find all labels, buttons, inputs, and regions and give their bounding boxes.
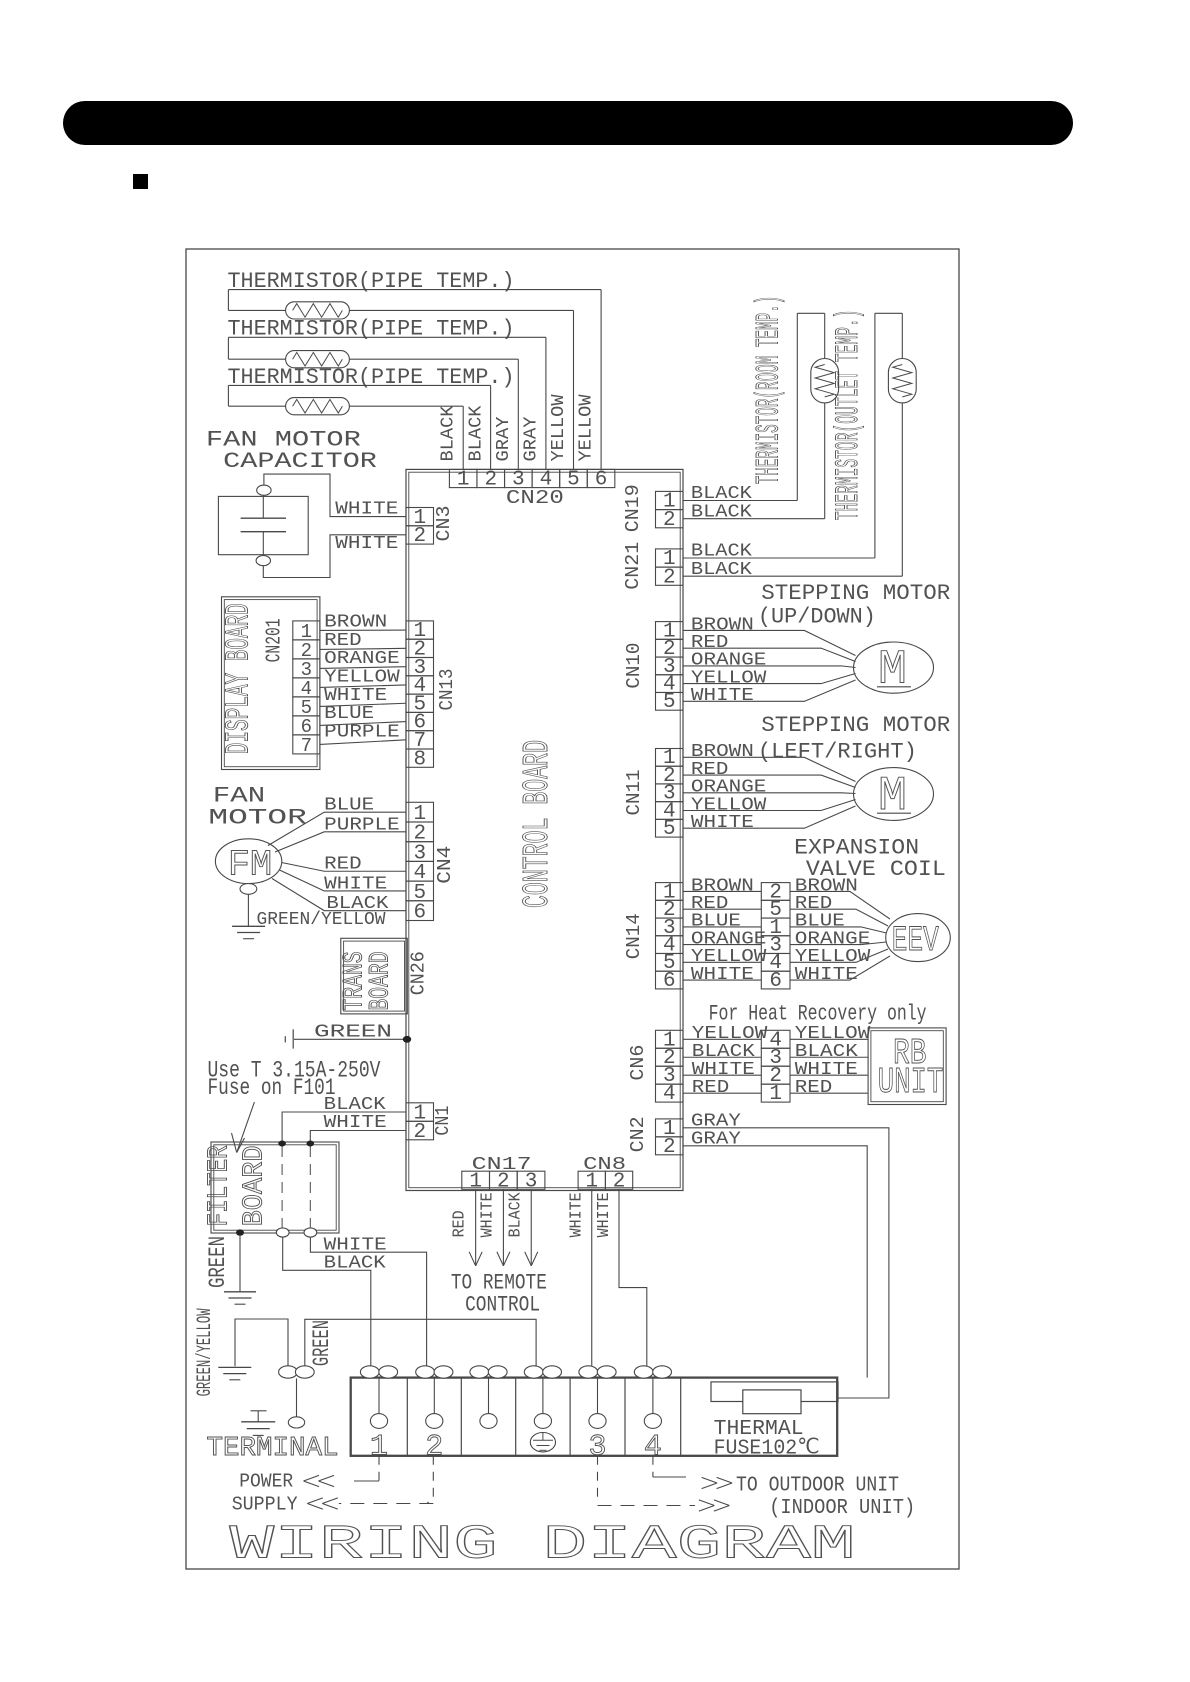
svg-text:GRAY: GRAY (520, 417, 541, 462)
terminal screw cell 6 (652, 1378, 654, 1414)
thermal fuse holder (711, 1382, 838, 1402)
svg-text:BLACK: BLACK (691, 559, 753, 580)
wire CN10 pin4 to motor M1 (YELLOW) (683, 674, 856, 684)
svg-text:5: 5 (663, 818, 676, 841)
svg-text:2: 2 (413, 1121, 426, 1144)
terminal screw cell 5 (597, 1378, 599, 1414)
svg-text:WHITE: WHITE (595, 1192, 614, 1237)
svg-text:BOARD: BOARD (237, 1145, 270, 1226)
thermistor TH5 resistor body (888, 359, 916, 403)
wire EEV connector to EEV coil (WHITE) (790, 956, 890, 980)
wire filter board to CN1 pin2 (WHITE) (310, 1131, 406, 1143)
chassis bolt stem (296, 1378, 298, 1417)
terminal lug pair cell 3 (470, 1366, 489, 1378)
fan motor FM body (215, 839, 281, 884)
expansion valve coil EEV (886, 914, 951, 962)
svg-text:GREEN/YELLOW: GREEN/YELLOW (257, 909, 387, 930)
svg-text:PURPLE: PURPLE (324, 721, 400, 742)
wire CN11 pin5 to motor M2 (WHITE) (683, 806, 856, 828)
wire CN11 pin2 to motor M2 (RED) (683, 775, 856, 787)
svg-text:WHITE: WHITE (567, 1192, 586, 1237)
wire FM to CN4 pin4 (RED) (282, 863, 406, 872)
wire display board pin4 to CN13 pin4 (YELLOW) (320, 685, 406, 687)
wire CN10 pin3 to motor M1 (ORANGE) (683, 666, 856, 668)
svg-text:BLACK: BLACK (438, 405, 459, 462)
trans board outline (341, 938, 408, 1014)
svg-text:UNIT: UNIT (878, 1062, 944, 1103)
svg-text:2: 2 (663, 566, 676, 589)
svg-text:PURPLE: PURPLE (324, 814, 400, 835)
wire RB connector to RB unit (BLACK) (790, 1056, 868, 1058)
svg-text:CN2: CN2 (627, 1116, 649, 1152)
filter board outline (211, 1142, 339, 1233)
wire display board pin5 to CN13 pin5 (WHITE) (320, 703, 406, 706)
terminal block divider 1 (406, 1378, 408, 1456)
dashed wire terminal 2 to power supply (427, 1456, 433, 1504)
svg-text:CN19: CN19 (622, 484, 644, 532)
svg-text:BLACK: BLACK (324, 1253, 387, 1274)
wire filter board to terminal 1 (BLACK) (283, 1237, 371, 1367)
svg-text:M: M (878, 644, 907, 698)
terminal screw cell 2 (433, 1378, 435, 1414)
svg-text:BLACK: BLACK (506, 1192, 525, 1238)
stepping motor M2 (left/right) (854, 768, 934, 821)
junction dot filter board top right (307, 1141, 315, 1147)
svg-text:(UP/DOWN): (UP/DOWN) (758, 604, 876, 629)
svg-text:CN201: CN201 (264, 618, 287, 662)
arrowhead CN17 pin3 (525, 1252, 532, 1266)
terminal block divider 2 (460, 1378, 462, 1456)
connector CN17 (3 pins) (462, 1171, 490, 1189)
connector CN3 (2 pins) (406, 508, 434, 526)
arrowhead CN17 pin2 (497, 1252, 504, 1266)
wire filter board to terminal 2 (WHITE) (310, 1237, 426, 1367)
svg-text:FILTER: FILTER (203, 1145, 236, 1226)
svg-text:CONTROL: CONTROL (465, 1292, 540, 1317)
svg-text:STEPPING MOTOR: STEPPING MOTOR (761, 581, 950, 606)
svg-text:FM: FM (228, 845, 272, 886)
dashed wire terminal 1 to power supply (378, 1456, 380, 1481)
junction dot filter board top left (278, 1141, 286, 1147)
wire FM to ground (GREEN/YELLOW) (247, 894, 249, 926)
wire CN11 pin3 to motor M2 (ORANGE) (683, 792, 856, 795)
wire CN11 pin4 to motor M2 (YELLOW) (683, 800, 856, 811)
wire CN6 pin1 to RB connector (YELLOW) (683, 1038, 761, 1040)
svg-text:GREEN: GREEN (314, 1021, 392, 1042)
svg-text:FUSE102℃: FUSE102℃ (714, 1437, 820, 1460)
wire CN2 pin2 (GRAY) to terminal block (683, 1146, 867, 1378)
svg-text:BLUE: BLUE (324, 795, 374, 816)
ground symbol chassis (GREEN/YELLOW) (218, 1366, 251, 1368)
chassis bolt lug (288, 1417, 304, 1428)
svg-text:6: 6 (663, 970, 676, 993)
wire capacitor to CN3 pin1 (WHITE) (264, 474, 406, 516)
thermal fuse body (743, 1390, 801, 1414)
wire FM to CN4 pin1 (BLUE) (268, 812, 406, 845)
svg-text:CN11: CN11 (623, 770, 645, 816)
connector CN11 (5 pins) (656, 749, 684, 767)
connector CN21 (2 pins) (656, 549, 684, 567)
wire CN14 pin4 to EEV connector (ORANGE) (683, 944, 761, 946)
capacitor C1 top terminal (257, 485, 271, 495)
wire CN6 pin4 to RB connector (RED) (683, 1092, 761, 1094)
arrow supply (terminal 2) (307, 1498, 323, 1504)
terminal screw cell 4 (542, 1378, 544, 1414)
wire CN17 to remote control (WHITE) (502, 1189, 504, 1266)
svg-text:THERMISTOR(OUTLET TEMP.): THERMISTOR(OUTLET TEMP.) (830, 310, 867, 521)
terminal earth symbol (530, 1433, 555, 1452)
svg-text:THERMISTOR(ROOM TEMP.): THERMISTOR(ROOM TEMP.) (751, 296, 788, 485)
svg-text:WHITE: WHITE (324, 1234, 387, 1255)
svg-text:6: 6 (769, 970, 782, 993)
wire EEV connector to EEV coil (YELLOW) (790, 949, 888, 962)
terminal lug pair cell 1 (360, 1366, 379, 1378)
connector CN19 (2 pins) (656, 491, 684, 509)
terminal block divider 6 (680, 1378, 682, 1456)
arrow power (terminal 1) (304, 1475, 320, 1481)
chassis lug right (295, 1366, 314, 1378)
svg-text:2: 2 (663, 509, 676, 532)
capacitor C1 plates (241, 517, 286, 519)
wire CN14 pin5 to EEV connector (YELLOW) (683, 961, 761, 963)
svg-text:GREEN: GREEN (205, 1236, 231, 1288)
wire CN14 pin2 to EEV connector (RED) (683, 908, 761, 910)
terminal block divider 4 (569, 1378, 571, 1456)
junction dot filter board bottom (green) (236, 1229, 244, 1235)
wire CN14 pin1 to EEV connector (BROWN) (683, 890, 761, 892)
control board outline (406, 469, 683, 1190)
svg-text:GREEN: GREEN (309, 1320, 335, 1366)
wire RB connector to RB unit (RED) (790, 1092, 868, 1094)
connector CN14 (6 pins) (656, 883, 684, 901)
terminal lug pair cell 5 (579, 1366, 598, 1378)
connector CN2 (2 pins) (656, 1119, 684, 1137)
svg-text:GREEN/YELLOW: GREEN/YELLOW (194, 1308, 217, 1396)
wire EEV connector to EEV coil (BLUE) (790, 927, 887, 933)
thermistor TH1 resistor body (286, 302, 350, 319)
wire RB connector to RB unit (WHITE) (790, 1074, 868, 1076)
svg-text:EEV: EEV (892, 921, 939, 961)
filter board internal dashed line 2 (309, 1146, 311, 1229)
stepping motor M1 (up/down) (854, 642, 934, 693)
ground symbol below filter board (224, 1291, 256, 1293)
RB unit outline (868, 1028, 946, 1105)
display board outline (222, 597, 320, 770)
thermistor TH4 resistor body (811, 359, 839, 403)
svg-text:DISPLAY BOARD: DISPLAY BOARD (221, 603, 258, 754)
svg-text:WHITE: WHITE (478, 1192, 497, 1237)
wire display board pin3 to CN13 pin3 (ORANGE) (320, 667, 406, 669)
arrow to indoor unit (terminal 3) (714, 1500, 730, 1506)
dashed wire terminal 3 to outdoor unit (597, 1456, 599, 1504)
svg-text:STEPPING MOTOR: STEPPING MOTOR (761, 713, 950, 738)
arrow to outdoor unit (terminal 4) (717, 1477, 733, 1483)
wire CN14 pin6 to EEV connector (WHITE) (683, 979, 761, 981)
wire FM to CN4 pin2 (PURPLE) (275, 832, 406, 852)
svg-text:(INDOOR UNIT): (INDOOR UNIT) (769, 1497, 915, 1520)
filter board bottom terminal lug 2 (304, 1228, 317, 1237)
terminal block divider 5 (624, 1378, 626, 1456)
wire CN21 pin2 (BLACK) (683, 575, 902, 577)
svg-text:5: 5 (663, 691, 676, 714)
thermistor TH3 loop wires (228, 384, 490, 386)
svg-text:RED: RED (795, 1077, 833, 1098)
svg-text:CN20: CN20 (506, 487, 564, 509)
earth stub symbol (284, 1036, 286, 1042)
svg-text:RED: RED (692, 1077, 730, 1098)
svg-text:2: 2 (663, 1136, 676, 1159)
svg-text:WHITE: WHITE (795, 964, 858, 985)
wire CN6 pin2 to RB connector (BLACK) (683, 1056, 761, 1058)
terminal lug pair cell 2 (416, 1366, 435, 1378)
svg-text:MOTOR: MOTOR (208, 805, 306, 830)
ground symbol below FM (232, 925, 265, 927)
display board connector CN201 (7 pins) (293, 621, 320, 640)
svg-text:CN3: CN3 (433, 506, 455, 542)
svg-text:CN26: CN26 (408, 951, 430, 995)
svg-text:YELLOW: YELLOW (548, 394, 569, 462)
svg-text:CN14: CN14 (623, 913, 645, 959)
terminal block divider 3 (515, 1378, 517, 1456)
svg-text:WHITE: WHITE (335, 499, 398, 520)
svg-text:WHITE: WHITE (691, 685, 754, 706)
svg-text:THERMISTOR(PIPE TEMP.): THERMISTOR(PIPE TEMP.) (228, 317, 515, 342)
wire filter board to CN1 pin1 (BLACK) (282, 1112, 406, 1142)
wire RB connector to RB unit (YELLOW) (790, 1038, 868, 1040)
wire EEV connector to EEV coil (BROWN) (790, 891, 890, 919)
svg-text:CN13: CN13 (436, 669, 458, 711)
capacitor C1 body box (218, 496, 308, 554)
svg-text:WHITE: WHITE (691, 964, 754, 985)
EEV inline connector (6 pins) (761, 883, 790, 901)
svg-text:2: 2 (413, 525, 426, 548)
svg-text:THERMISTOR(PIPE TEMP.): THERMISTOR(PIPE TEMP.) (228, 269, 515, 294)
svg-text:WHITE: WHITE (691, 812, 754, 833)
svg-text:CN4: CN4 (434, 846, 456, 884)
svg-text:1: 1 (769, 1083, 782, 1106)
terminal screw cell 3 (488, 1378, 490, 1414)
thermistor TH5 loop wires (875, 312, 902, 314)
svg-text:CN21: CN21 (622, 542, 644, 590)
svg-text:WHITE: WHITE (335, 533, 398, 554)
junction dot on control board edge (403, 1036, 411, 1043)
terminal block outline (351, 1378, 838, 1456)
wire capacitor to CN3 pin2 (WHITE) (263, 535, 406, 578)
terminal screw cell 1 (378, 1378, 380, 1414)
wire CN17 to remote control (RED) (475, 1189, 477, 1266)
connector CN4 (6 pins) (406, 802, 434, 822)
svg-text:TO OUTDOOR UNIT: TO OUTDOOR UNIT (736, 1474, 899, 1497)
section bullet (133, 174, 148, 189)
filter board bottom terminal lug 1 (276, 1228, 289, 1237)
arrowhead CN17 pin1 (469, 1252, 476, 1266)
connector CN8 (2 pins) (578, 1171, 605, 1189)
wire EEV connector to EEV coil (ORANGE) (790, 942, 887, 945)
svg-text:CN10: CN10 (623, 643, 645, 689)
wire CN8 pin1 to terminal 3 (WHITE) (591, 1189, 593, 1366)
wire CN2 pin1 (GRAY) to thermal fuse (683, 1128, 889, 1398)
svg-text:WHITE: WHITE (324, 1112, 387, 1133)
wire filter board to ground (GREEN) (239, 1235, 241, 1292)
connector CN10 (5 pins) (656, 622, 684, 640)
ground symbol near terminal (251, 1410, 267, 1412)
svg-text:YELLOW: YELLOW (576, 394, 597, 462)
svg-text:4: 4 (663, 1083, 676, 1106)
title banner (redacted) (63, 101, 1073, 145)
terminal lug pair cell 4 (524, 1366, 543, 1378)
svg-text:7: 7 (301, 735, 312, 757)
svg-text:CN6: CN6 (627, 1045, 649, 1081)
svg-text:POWER: POWER (239, 1471, 293, 1493)
svg-text:6: 6 (413, 902, 426, 925)
svg-text:WIRING DIAGRAM: WIRING DIAGRAM (230, 1519, 856, 1573)
connector CN1 (2 pins) (406, 1103, 434, 1122)
wire CN10 pin5 to motor M1 (WHITE) (683, 680, 856, 701)
wire FM to CN4 pin6 (BLACK) (272, 879, 406, 911)
svg-text:CAPACITOR: CAPACITOR (223, 449, 377, 474)
wire CN21 pin1 (BLACK) (683, 557, 875, 559)
wire FM to CN4 pin5 (WHITE) (280, 870, 407, 891)
capacitor C1 bottom terminal (256, 556, 270, 566)
fuse note arrow to filter board (237, 1102, 255, 1153)
svg-text:RED: RED (324, 854, 362, 875)
thermistor TH4 loop wires (797, 312, 824, 314)
wire EEV connector to EEV coil (RED) (790, 909, 888, 926)
svg-text:(LEFT/RIGHT): (LEFT/RIGHT) (758, 740, 917, 765)
svg-text:THERMISTOR(PIPE TEMP.): THERMISTOR(PIPE TEMP.) (228, 365, 515, 390)
wire CN14 pin3 to EEV connector (BLUE) (683, 926, 761, 928)
wire display board pin7 to CN13 pin7 (PURPLE) (320, 740, 406, 745)
thermistor TH2 resistor body (286, 351, 350, 368)
wire CN11 pin1 to motor M2 (BROWN) (683, 757, 856, 781)
chassis lug left (279, 1366, 298, 1378)
wire CN8 pin2 to terminal 4 (WHITE) (619, 1189, 647, 1366)
thermistor TH1 loop wires (228, 289, 601, 291)
wire chassis lug to ground (GREEN/YELLOW) (235, 1319, 288, 1367)
svg-text:CN1: CN1 (432, 1106, 454, 1136)
wire CN10 pin1 to motor M1 (BROWN) (683, 630, 856, 655)
svg-text:GRAY: GRAY (493, 417, 514, 462)
svg-text:8: 8 (413, 748, 426, 771)
wire chassis lug to terminal earth (GREEN) (305, 1319, 536, 1366)
wire CN19 pin2 (BLACK) (683, 518, 825, 520)
svg-text:CONTROL BOARD: CONTROL BOARD (517, 740, 558, 908)
svg-text:RED: RED (451, 1210, 470, 1237)
svg-text:TERMINAL: TERMINAL (207, 1434, 339, 1464)
connector CN6 (4 pins) (656, 1030, 684, 1048)
wire CN19 pin1 (BLACK) (683, 500, 797, 502)
svg-text:Fuse on F101: Fuse on F101 (208, 1075, 336, 1101)
thermistor TH2 loop wires (228, 336, 546, 338)
diagram frame (186, 249, 959, 1569)
svg-text:SUPPLY: SUPPLY (232, 1494, 298, 1516)
filter board internal dashed line 1 (281, 1146, 283, 1229)
svg-text:WHITE: WHITE (324, 873, 387, 894)
svg-text:M: M (878, 770, 907, 824)
svg-text:GRAY: GRAY (691, 1129, 741, 1150)
wire display board pin1 to CN13 pin1 (BROWN) (320, 629, 406, 631)
svg-text:BLACK: BLACK (465, 405, 486, 462)
terminal lug pair cell 6 (634, 1366, 653, 1378)
wire display board pin2 to CN13 pin2 (RED) (320, 648, 406, 649)
svg-text:BOARD: BOARD (366, 952, 397, 1011)
wire CN6 pin3 to RB connector (WHITE) (683, 1074, 761, 1076)
wire GREEN to control board (294, 1038, 406, 1040)
RB inline connector (4 pins) (761, 1030, 790, 1048)
connector CN13 (8 pins) (406, 621, 434, 639)
FM ground terminal (240, 884, 257, 895)
svg-text:2: 2 (425, 1430, 443, 1464)
wire CN17 to remote control (BLACK) (530, 1189, 532, 1266)
dashed wire terminal 4 to outdoor unit (652, 1456, 654, 1477)
wire CN10 pin2 to motor M1 (RED) (683, 648, 856, 661)
thermistor TH3 resistor body (286, 398, 350, 415)
svg-text:BLACK: BLACK (691, 501, 753, 522)
wire display board pin6 to CN13 pin6 (BLUE) (320, 722, 406, 726)
